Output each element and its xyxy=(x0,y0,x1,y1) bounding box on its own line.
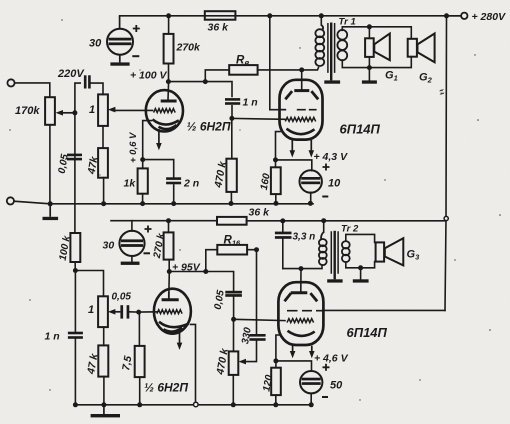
wire: +280V terminal lead xyxy=(447,15,462,17)
resistor R16 (horizontal) xyxy=(217,245,247,255)
wire: cap30-2 top lead xyxy=(131,221,133,231)
wire: cathode node to cap50 xyxy=(276,361,312,371)
wire: cap30-2 ground stem xyxy=(131,256,133,262)
Tr2 primary winding xyxy=(319,239,327,246)
control grid zigzag of pentode2 xyxy=(287,319,314,323)
wire: +100V node to 1n cap corner xyxy=(168,82,232,97)
svg-text:36 k: 36 k xyxy=(249,207,271,219)
speaker G1 xyxy=(365,34,390,61)
polarity + cap30 ch2 xyxy=(145,226,152,233)
svg-text:Tr 1: Tr 1 xyxy=(339,17,356,28)
screen grid dashes of pentode2 xyxy=(287,310,323,312)
wire: pot1-2 to 47k-2 xyxy=(103,327,105,345)
node: dot cathode node ch1 xyxy=(140,157,145,162)
wire: 270k-2 top lead xyxy=(168,221,170,233)
anode bar of pentode1 xyxy=(294,89,309,92)
node: dot triode2 grid node xyxy=(136,310,141,315)
wire: cathode node to cap10 xyxy=(276,160,312,171)
svg-text:36 k: 36 k xyxy=(208,22,230,34)
node: dot R16 left lead tee xyxy=(203,269,208,274)
wire: triode1 grid lead to pot1 wiper xyxy=(113,109,153,111)
svg-text:1: 1 xyxy=(88,304,94,316)
wire: 0.05-2cap right lead to grid node triode2 xyxy=(130,311,139,313)
potentiometer 170k xyxy=(45,97,55,125)
potentiometer 470k (ch2) xyxy=(229,351,239,375)
svg-text:+ 100 V: + 100 V xyxy=(130,70,167,82)
wiper arrow of pot 1 ch2 xyxy=(115,311,121,313)
svg-text:0,05: 0,05 xyxy=(112,292,132,303)
node: dot Tr2 primary top xyxy=(321,218,326,223)
wire: 1n cap bottom to grid node xyxy=(231,106,233,119)
wire: Tr1 secondary top lead to G1/G2 line xyxy=(342,27,411,39)
wire: input terminal 1 to 170k pot xyxy=(15,83,50,97)
node: dot G1 top xyxy=(367,24,372,29)
heater arrow of triode1 xyxy=(158,129,160,144)
speaker G2 xyxy=(408,34,435,63)
wire: 220V cap left lead and vertical line to 0.05 and 100k xyxy=(75,83,80,233)
wire: Tr2 primary top lead xyxy=(323,221,325,233)
electrolytic capacitor 50 xyxy=(300,371,322,393)
ground: under cap 30 (ch2) xyxy=(121,262,140,265)
wire: G1 ground stem xyxy=(368,68,370,81)
wire: pentode1 screen feed xyxy=(270,16,285,110)
wire: 7.5 resistor bottom lead xyxy=(139,377,141,405)
wire: Tr1 primary top lead xyxy=(320,16,322,25)
anode bar of triode1 xyxy=(161,100,177,103)
node: +100V junction dot xyxy=(166,79,171,84)
Tr2 core xyxy=(331,231,338,273)
node: dot cathode node ch2 xyxy=(273,358,278,363)
node: dot 100k-2 bottom junction xyxy=(73,268,78,273)
wire: 47k bottom lead xyxy=(103,178,105,204)
wire: pot1 to 47k link xyxy=(102,126,104,148)
wire: 1k top lead xyxy=(142,160,144,169)
resistor 36k (ch1, horizontal) xyxy=(205,11,236,20)
wire: +95V node to 0.05-2 corner xyxy=(169,272,233,291)
ground: ch2 bus xyxy=(103,405,105,414)
resistor 7.5 xyxy=(135,346,145,377)
wire: ch2 screen feed from rail xyxy=(323,309,446,311)
tube U1 triode 1/2 6N2P (ch1) xyxy=(146,90,183,131)
wire: 0.05-2 bottom to grid node ch2 xyxy=(233,297,235,320)
svg-text:1 n: 1 n xyxy=(45,331,60,343)
wire: 160 bottom lead xyxy=(275,194,277,203)
svg-text:1 n: 1 n xyxy=(243,97,258,109)
svg-text:+ 95V: + 95V xyxy=(172,262,201,274)
wire: ch1 B+ top rail (+280V) xyxy=(120,15,461,17)
node: junction dot right rail top xyxy=(444,13,449,18)
grid zigzag of triode2 xyxy=(157,310,182,314)
svg-text:270k: 270k xyxy=(176,42,202,54)
node: dot 3.3n top xyxy=(280,218,285,223)
wire: 270k bottom lead to +100V node xyxy=(168,64,170,82)
ground: ch1 bus xyxy=(49,204,51,217)
wire: grid line to pentode1 xyxy=(232,117,285,120)
resistor 47k (ch2) xyxy=(98,345,108,376)
wire: Tr2 secondary top lead to G3 xyxy=(346,234,375,242)
node: dot grid node ch1 xyxy=(229,116,234,121)
electrolytic capacitor 30 (ch1) xyxy=(107,16,133,63)
wire: 100k-2 junction to pot1-2 xyxy=(75,271,103,297)
resistor 47k (ch1) xyxy=(98,148,108,178)
capacitor 0.05 (ch2 anode coupling) xyxy=(225,291,242,297)
resistor Rv (feedback, horizontal) xyxy=(229,65,257,75)
terminal: input 1 xyxy=(7,79,14,86)
Tr2 secondary winding xyxy=(342,241,350,248)
wire: 330 cap bottom to wiper xyxy=(245,341,257,362)
wire: pentode2 anode line xyxy=(283,265,322,269)
heater arrow of triode2 xyxy=(179,333,181,344)
polarity - cap30 ch1 xyxy=(132,55,139,57)
resistor 36k (ch2, horizontal) xyxy=(217,217,247,225)
wire: 270k-2 bottom to +95V node xyxy=(168,260,170,272)
wire: 3.3n cap leads xyxy=(282,221,284,269)
svg-text:+ 280V: + 280V xyxy=(472,11,507,23)
ground: under cap 30 (ch1) xyxy=(110,62,129,65)
wire: R16 left lead xyxy=(206,250,218,272)
wire: 1k bottom lead xyxy=(142,194,144,204)
tube U4 pentode 6P14P (ch2) xyxy=(278,282,323,345)
wire: 1n-2 top lead xyxy=(74,271,76,332)
wire: G1 top lead xyxy=(368,27,370,39)
wire: 160 top lead xyxy=(275,160,277,167)
cathode of triode2 xyxy=(159,322,188,327)
node: dots on ch1 ground bus xyxy=(48,201,313,206)
svg-text:Tr 2: Tr 2 xyxy=(341,224,359,235)
svg-text:7,5: 7,5 xyxy=(120,355,134,372)
svg-text:+ 0,6 V: + 0,6 V xyxy=(128,132,139,163)
anode lead inside triode2 xyxy=(168,292,170,298)
wire: 100k-2 bottom lead xyxy=(74,262,76,271)
node: dot pentode1 anode / Rv / Tr1 primary xyxy=(299,67,304,72)
svg-text:6П14П: 6П14П xyxy=(347,325,388,340)
ground: Tr1 core xyxy=(324,80,340,83)
wire: pentode1 cathode lead xyxy=(276,132,281,160)
wire: pentode2 anode lead xyxy=(300,269,302,292)
wire: Rv left lead xyxy=(205,70,229,82)
terminal: +280V xyxy=(461,13,467,19)
wire: G3 ground stem xyxy=(360,268,362,280)
svg-text:½ 6Н2П: ½ 6Н2П xyxy=(144,381,188,395)
wire: 2n bottom lead xyxy=(173,185,175,204)
wire: 220V cap right lead down to pot 1 xyxy=(91,83,103,94)
node: dot Rv left lead tee xyxy=(203,79,208,84)
control grid zigzag of pentode1 xyxy=(285,117,315,121)
cathode arc of pentode2 xyxy=(288,331,315,336)
svg-text:+ 4,3 V: + 4,3 V xyxy=(314,151,349,163)
node: junction dot Tr1 primary top xyxy=(319,13,324,18)
electrolytic capacitor 30 (ch2) xyxy=(119,231,144,256)
capacitor 2n (ch1) xyxy=(166,177,181,184)
svg-text:1: 1 xyxy=(89,104,95,116)
wire: 470k-2 pot bottom lead xyxy=(232,375,234,405)
svg-text:30: 30 xyxy=(89,38,102,50)
resistor 120 (cathode, ch2) xyxy=(271,368,281,395)
wire: 170k pot bottom lead xyxy=(49,125,51,204)
resistor 270k (ch1) xyxy=(164,34,174,64)
capacitor 330 xyxy=(249,334,265,341)
wire: R16 right lead down to 330 cap xyxy=(247,250,256,335)
Tr1 secondary winding xyxy=(337,30,347,40)
wiper arrow of 170k xyxy=(62,112,75,114)
wire: Tr1 secondary bottom lead xyxy=(342,57,411,68)
Tr1 core xyxy=(328,23,335,73)
wire: grid line to pentode2 xyxy=(234,319,285,320)
anode bar of pentode2 xyxy=(291,291,308,294)
svg-text:2 n: 2 n xyxy=(183,178,199,190)
wire: 470k-2 pot top lead xyxy=(233,319,235,351)
svg-text:3,3 n: 3,3 n xyxy=(293,232,316,243)
resistor 100k (ch2) xyxy=(70,233,80,262)
ground: Tr2 core xyxy=(327,279,342,282)
grid zigzag of triode1 xyxy=(154,109,176,113)
anode bar of triode2 xyxy=(162,298,179,301)
node: dot 270k-2 top xyxy=(166,218,171,223)
node: dot 170k wiper tap xyxy=(72,110,77,115)
capacitor 1n (ch1) xyxy=(225,98,240,105)
wire: triode1 anode lead xyxy=(167,82,170,100)
potentiometer 1 (ch1) xyxy=(98,94,108,126)
node: dot G3 return xyxy=(358,265,363,270)
cathode of triode1 xyxy=(153,119,179,124)
wiper arrow of pot 1 from triode grid line xyxy=(108,109,115,111)
ground: G1 return xyxy=(362,80,377,83)
wire: G1 bottom lead xyxy=(368,57,370,68)
wire: ch2 ground bus xyxy=(75,404,312,406)
wire: right B+ rail down to ch2 xyxy=(445,16,447,311)
wire: 470k top lead xyxy=(231,118,233,158)
svg-text:1k: 1k xyxy=(124,178,137,190)
node: dot grid node ch2 xyxy=(231,317,236,322)
node: dot cathode node pentode1 xyxy=(273,157,278,162)
wire: triode1 cathode lead xyxy=(143,121,152,160)
wire: 470k bottom lead xyxy=(230,192,232,204)
tube U3 triode 1/2 6N2P (ch2) xyxy=(154,289,191,334)
wire: Rv right lead to pentode anode line xyxy=(258,69,302,71)
wire: ch2 B+ line xyxy=(111,220,217,222)
wire: Tr1 primary bottom to anode xyxy=(302,68,319,70)
node: junction dot 270k top xyxy=(166,13,171,18)
capacitor 0.05 (ch1, horizontal plates) xyxy=(67,154,82,161)
svg-text:220V: 220V xyxy=(57,68,85,80)
speaker G3 xyxy=(376,238,404,265)
svg-text:170k: 170k xyxy=(15,105,40,117)
wiper arrow of 470k pot xyxy=(239,359,247,365)
wire: cathode node to 2n cap xyxy=(143,160,174,178)
svg-text:½ 6Н2П: ½ 6Н2П xyxy=(187,120,231,134)
wire: pentode1 anode lead xyxy=(301,70,303,90)
transformer Tr2 xyxy=(319,231,350,279)
polarity + cap10 xyxy=(323,164,330,171)
node: +95V junction dot xyxy=(167,269,172,274)
node: dot R16 right corner xyxy=(254,247,259,252)
node: dots on ch2 ground bus xyxy=(73,402,314,407)
polarity + cap30 ch1 xyxy=(133,25,140,32)
transformer Tr1 xyxy=(315,23,347,81)
wire: 47k-2 bottom lead xyxy=(103,377,105,405)
polarity - cap10 xyxy=(322,196,328,198)
svg-text:30: 30 xyxy=(103,240,115,252)
capacitor 1n (ch2) xyxy=(68,332,83,339)
capacitor 0.05 (ch2 coupling, vertical plates) xyxy=(120,305,129,318)
node: small circle triode2 cathode return xyxy=(194,402,199,407)
screen grid dashes of pentode1 xyxy=(281,109,317,111)
wire: triode2 grid lead xyxy=(139,311,158,313)
capacitor 3.3n xyxy=(275,232,292,239)
wire: 7.5 resistor top lead xyxy=(138,312,140,346)
wire: 120 leads xyxy=(275,361,277,405)
cathode arc of pentode1 xyxy=(287,129,315,134)
node: dot G1 bottom xyxy=(367,65,372,70)
node: junction dot screen feed xyxy=(267,13,272,18)
polarity - cap30 ch2 xyxy=(144,252,151,254)
wire: triode2 anode lead xyxy=(168,272,171,299)
heater arrows of pentode2 xyxy=(293,346,312,353)
resistor 270k (ch2) xyxy=(164,232,174,259)
wire: pentode2 cathode lead xyxy=(276,335,280,361)
tube U2 pentode 6P14P (ch1) xyxy=(280,80,323,140)
ground: Tr2 secondary / G3 xyxy=(353,279,369,282)
wire: cap50 bottom lead xyxy=(310,393,312,405)
resistor 160 (cathode, ch1) xyxy=(271,167,281,194)
node: small circle rail/ch2 B+ junction xyxy=(444,216,448,220)
heater arrows of pentode1 xyxy=(292,140,311,152)
wire: 1n-2 bottom lead xyxy=(74,339,76,405)
polarity + cap50 xyxy=(323,364,330,371)
svg-text:6П14П: 6П14П xyxy=(340,122,381,137)
svg-text:+ 4,6 V: + 4,6 V xyxy=(314,353,349,365)
wire: ch1 ground bus xyxy=(14,201,313,204)
resistor 1k (ch1) xyxy=(138,168,148,193)
polarity - cap50 xyxy=(322,396,328,398)
wire: 270k top lead xyxy=(168,16,170,34)
beam plates of pentode1 xyxy=(285,91,292,99)
beam plates of pentode2 xyxy=(285,293,292,301)
wire: triode2 cathode down line xyxy=(191,324,196,402)
Tr1 primary winding xyxy=(315,29,324,37)
resistor 470k (ch1) xyxy=(226,159,236,192)
node: dot pentode2 anode xyxy=(299,266,304,271)
capacitor 220V (coupling) xyxy=(84,75,91,88)
svg-text:50: 50 xyxy=(330,380,343,392)
electrolytic capacitor 10 (ch1) xyxy=(300,170,322,192)
terminal: input 2 xyxy=(7,197,14,204)
potentiometer 1 (ch2) xyxy=(98,296,108,327)
wire: Tr2 secondary bottom lead xyxy=(346,262,375,268)
wire: cap10 bottom lead xyxy=(310,192,312,203)
svg-text:10: 10 xyxy=(328,178,341,190)
